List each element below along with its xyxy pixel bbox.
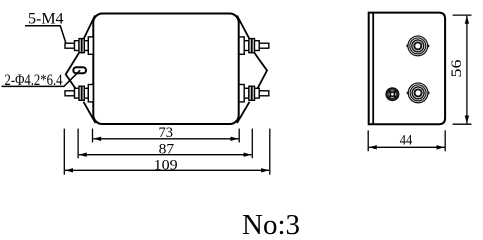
leader for slot label [2,70,81,86]
dim 87 text [159,141,175,157]
dim 44 text [400,132,413,148]
left flange middle edge [66,53,79,89]
dim 109 line [65,168,269,172]
terminal top-left [65,37,93,54]
dim 44 line [369,145,445,149]
dim 109 extension lines [64,129,269,175]
dim 44 extension lines [368,130,445,151]
caption No:3 [242,209,300,240]
svg-text:44: 44 [400,132,413,148]
dim 87 extension lines [78,129,252,159]
terminal end top (side view) [406,35,429,56]
right flange middle edge [255,53,268,89]
svg-text:87: 87 [159,141,175,157]
label 2-PHI4.2*6.4 [5,72,63,89]
side view flange face line [372,13,374,124]
label 5-M4 [28,11,64,28]
leader for 5-M4 [25,26,66,44]
svg-text:56: 56 [449,59,465,78]
terminal bottom-right [239,85,269,102]
terminal bottom-left [65,85,93,102]
svg-text:5-M4: 5-M4 [28,11,64,28]
svg-text:73: 73 [159,125,174,141]
mounting slot 4.2x6.4 [73,67,86,73]
right flange top slope [237,16,250,40]
right flange bottom slope [237,102,250,123]
svg-text:No:3: No:3 [242,209,300,238]
dim 56 extension lines [453,15,472,124]
dim 109 text [154,158,178,174]
dim 56 line [465,16,469,124]
dim 73 line [93,137,238,141]
ground screw (side view) [385,87,399,101]
side view outline [369,13,445,125]
dim 87 line [79,153,252,157]
left flange bottom slope [84,102,96,123]
terminal end bottom (side view) [407,82,430,103]
svg-text:109: 109 [154,158,178,174]
dim 73 extension lines [93,129,240,143]
dim 73 text [159,125,174,141]
terminal top-right [239,37,269,54]
left flange top slope [84,16,95,40]
dim 56 text [449,59,465,78]
body of filter (front view) [93,14,238,125]
